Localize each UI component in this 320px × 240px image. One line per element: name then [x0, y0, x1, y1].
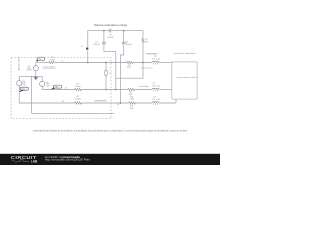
svg-text:http://circuitlab.com/c26c26 P: http://circuitlab.com/c26c26 Plan: [45, 158, 91, 162]
svg-text:70mΩ: 70mΩ: [75, 98, 81, 100]
capacitor C4 (horizontal, in top wire): [109, 29, 111, 33]
svg-text:LAB: LAB: [31, 159, 38, 163]
riser B with capacitor C5: [104, 31, 116, 90]
probe callout P1: [36, 60, 39, 62]
resistor R2 70mohm on L2: [75, 88, 82, 90]
resistor R4 30ohm on L1 right: [126, 61, 133, 63]
watermark bar: [0, 154, 220, 165]
svg-text:-120: -120: [46, 85, 50, 87]
svg-text:30Ω: 30Ω: [130, 108, 134, 110]
svg-text:aumentando las tensions de les: aumentando las tensions de les bobines e…: [33, 129, 188, 132]
resistor R1 70mohm on L1: [49, 61, 55, 63]
riser A from bank to L1: [87, 31, 89, 63]
star rail: [19, 75, 42, 77]
resistor R6 30ohm on L3: [129, 102, 136, 104]
svg-text:100 µF: 100 µF: [107, 37, 114, 39]
jog wire from R7 node down-left: [116, 63, 143, 79]
wire L3 main: [19, 99, 176, 103]
resistor R3 70mohm on L3: [75, 102, 82, 104]
capacitor bank top wire: [88, 30, 143, 32]
svg-text:Instal lacio alimentada: Instal lacio alimentada: [174, 52, 197, 55]
svg-text:100 µF: 100 µF: [126, 44, 133, 46]
source V1 (phase A): [35, 63, 37, 66]
wire L2 main: [42, 89, 172, 91]
svg-text:30Ω: 30Ω: [127, 67, 131, 69]
source V2 (phase B): [41, 76, 43, 81]
svg-text:70mΩ: 70mΩ: [75, 86, 81, 88]
riser C with capacitor C6: [120, 31, 123, 103]
load box: [172, 62, 197, 99]
svg-text:50 Hz: 50 Hz: [27, 70, 32, 72]
capacitor C6 plates: [122, 42, 126, 44]
capacitor C5 plates: [102, 42, 106, 44]
svg-text:Bateria de condensadors en tri: Bateria de condensadors en triangle: [94, 24, 127, 27]
junction dots: [87, 30, 144, 104]
probe callout P2: [51, 87, 55, 90]
svg-text:TCT 1:40: TCT 1:40: [152, 59, 161, 61]
svg-text:TCT 1:40: TCT 1:40: [152, 99, 161, 101]
inductor branch between L1 and L2: [105, 63, 107, 90]
svg-text:Carrega comandada en calefacto: Carrega comandada en calefactor: [176, 76, 197, 79]
svg-text:Current Bxxx: Current Bxxx: [138, 85, 149, 88]
ground: [34, 76, 38, 80]
dashed subcircuit box: alternador: [11, 58, 111, 119]
probe callout P3: [19, 90, 23, 92]
svg-text:70mΩ: 70mΩ: [50, 59, 56, 61]
resistor R5 30ohm on L2: [128, 88, 135, 90]
svg-text:120: 120: [22, 84, 25, 86]
svg-text:V(b): V(b): [55, 87, 59, 89]
svg-text:V(c): V(c): [22, 89, 26, 91]
svg-text:TCT 1:40: TCT 1:40: [152, 86, 161, 88]
branch R7 from bank top right down to L1: [142, 31, 144, 63]
svg-text:Alternador trifasic: Alternador trifasic: [18, 56, 21, 70]
svg-text:30Ω: 30Ω: [130, 98, 134, 100]
svg-text:100 µF: 100 µF: [94, 44, 101, 46]
switch blob on riser A: [86, 48, 88, 50]
wire L1 main: [37, 62, 172, 64]
svg-text:V(a): V(a): [38, 59, 42, 61]
source V3 (phase C): [18, 76, 20, 80]
neutral wire: [32, 76, 115, 113]
resistor R7 vertical: [142, 39, 144, 43]
